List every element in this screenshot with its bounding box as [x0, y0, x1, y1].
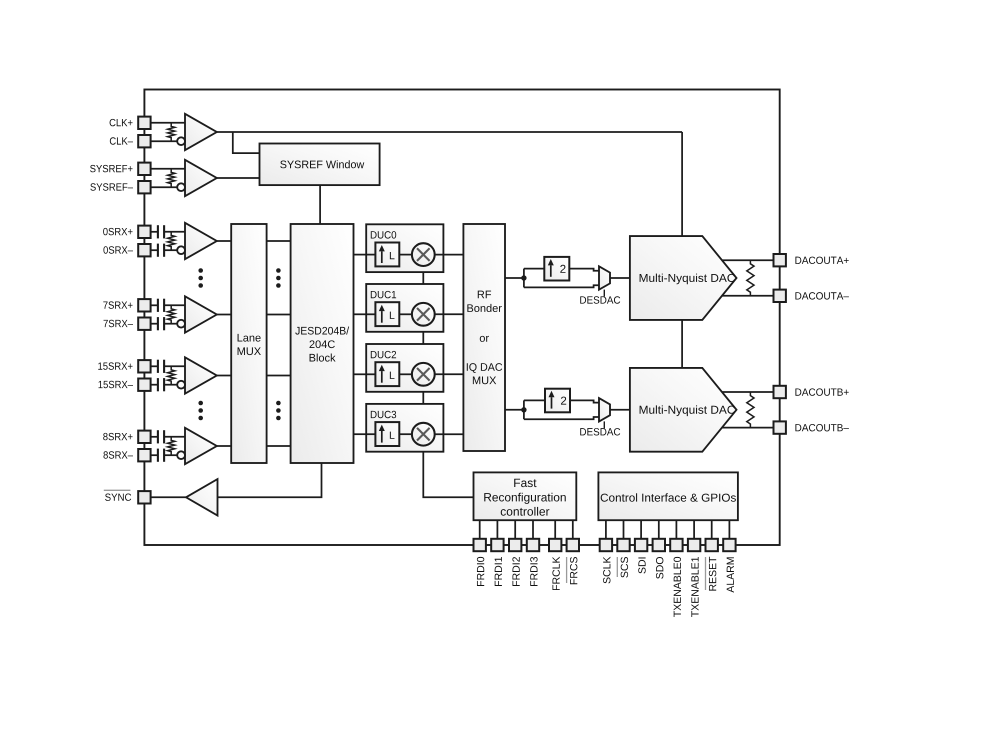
overline SCS — [616, 557, 618, 577]
wire RF mux output — [505, 409, 524, 411]
DESDAC select line — [603, 290, 605, 297]
DUC3 box — [366, 404, 443, 452]
input buffer 8SRX+/8SRX– — [185, 428, 217, 464]
pin SCS — [617, 539, 629, 551]
label CLK+ — [110, 119, 133, 126]
mixer DUC0 — [412, 243, 435, 266]
wire to pin FRDI2 — [514, 520, 516, 539]
capacitor on 15SRX– line — [157, 378, 159, 391]
wire into interpolator DUC3 — [366, 433, 375, 435]
buffer inverting bubble CLK– — [177, 137, 185, 145]
pin TXENABLE0 — [670, 539, 682, 551]
label FRDI3 — [530, 557, 537, 586]
pin DACOUTB+ — [774, 386, 786, 398]
wire RF mux output — [505, 277, 524, 279]
wire interpolator to mixer DUC0 — [399, 254, 412, 256]
block Lane MUX — [231, 224, 266, 463]
pin 15SRX+ — [138, 360, 150, 372]
wire to pin ALARM — [728, 520, 730, 539]
wire to pin FRCLK — [554, 520, 556, 539]
pin CLK– — [138, 135, 150, 147]
termination resistor 8SRX+/8SRX– — [168, 437, 175, 455]
wire CLK to SYSREF Window — [233, 132, 260, 153]
wire to pin TXENABLE1 — [693, 520, 695, 539]
junction node — [521, 275, 526, 280]
wire interpolator to mixer DUC2 — [399, 373, 412, 375]
capacitor on 7SRX– line — [157, 317, 159, 330]
label DUC3 — [371, 411, 396, 418]
bypass wire to DESDAC mux — [524, 417, 599, 419]
wire CLK buffer output — [217, 131, 682, 133]
pin DACOUTB– — [774, 421, 786, 433]
wire interpolator to mixer DUC3 — [399, 433, 412, 435]
x2 interpolator — [545, 389, 570, 413]
wire DACOUTA– — [722, 295, 774, 297]
label CLK– — [110, 137, 133, 144]
termination resistor 7SRX+/7SRX– — [168, 305, 175, 323]
wire to pin FRDI0 — [479, 520, 481, 539]
input buffer CLK+/CLK– — [185, 114, 217, 150]
wire buffer to Lane MUX (7SRX) — [217, 314, 232, 316]
label FRCLK — [552, 557, 559, 590]
interpolator (up-L) DUC3 — [375, 422, 399, 446]
wire 7SRX– to buffer bubble — [151, 323, 157, 325]
wire DACOUTB+ — [722, 391, 774, 393]
mixer DUC2 — [412, 363, 435, 386]
wire NCO chain to Fast Reconfiguration controller — [423, 255, 473, 498]
wire SYNC buffer to JESD204 block — [218, 463, 322, 497]
DESDAC mux — [599, 398, 610, 421]
label SDO — [656, 557, 663, 579]
ellipsis dots — [276, 401, 281, 406]
interpolator (up-L) DUC2 — [375, 362, 399, 386]
ellipsis dots — [198, 268, 203, 273]
block SYSREF Window — [260, 144, 380, 186]
wire to pin TXENABLE0 — [675, 520, 677, 539]
wire clock DAC A to DAC B — [681, 320, 683, 368]
junction node — [521, 407, 526, 412]
wire SYSREF– to buffer bubble — [151, 186, 178, 188]
block Control Interface &amp; GPIOs — [598, 472, 738, 520]
pin 0SRX– — [138, 244, 150, 256]
pin FRDI2 — [509, 539, 521, 551]
overline SYNC — [104, 489, 131, 491]
wire 8SRX– to buffer bubble — [151, 454, 157, 456]
termination resistor 0SRX+/0SRX– — [168, 232, 175, 250]
pin SDO — [653, 539, 665, 551]
Multi-Nyquist DAC A — [630, 236, 737, 320]
SYNC input buffer — [186, 479, 218, 515]
wire clock to DAC A — [681, 132, 683, 236]
ellipsis dots — [198, 401, 203, 406]
label FRCS — [570, 557, 577, 584]
wire SYSREF buffer to SYSREF Window — [217, 177, 260, 179]
DUC0 box — [366, 224, 443, 272]
wire to pin FRDI3 — [532, 520, 534, 539]
DUC1 box — [366, 284, 443, 332]
termination resistor CLK+/CLK– — [168, 123, 175, 141]
wire to x2 interpolator — [524, 268, 544, 270]
pin FRDI0 — [474, 539, 486, 551]
wire Lane MUX to JESD204 (lane 15) — [267, 375, 291, 377]
label FRDI2 — [512, 557, 519, 586]
wire mixer to RF mux DUC3 — [435, 433, 464, 435]
label DACOUTA– — [795, 292, 848, 299]
wire to pin SCLK — [605, 520, 607, 539]
capacitor on 7SRX+ line — [157, 299, 159, 312]
wire Lane MUX to JESD204 (lane 0) — [267, 240, 291, 242]
input buffer 7SRX+/7SRX– — [185, 296, 217, 332]
interpolator (up-L) DUC1 — [375, 302, 399, 326]
pin FRDI3 — [527, 539, 539, 551]
pin 7SRX+ — [138, 299, 150, 311]
label DESDAC — [580, 428, 620, 435]
wire mixer to RF mux DUC0 — [435, 254, 464, 256]
label SDI — [638, 557, 645, 573]
pin DACOUTA+ — [774, 254, 786, 266]
buffer inverting bubble 8SRX– — [177, 451, 185, 459]
termination resistor SYSREF+/SYSREF– — [168, 169, 175, 187]
pin DACOUTA– — [774, 290, 786, 302]
wire JESD204 to DUC2 — [354, 373, 367, 375]
input buffer SYSREF+/SYSREF– — [185, 160, 217, 196]
label SYSREF+ — [90, 165, 132, 172]
wire interpolator to mixer DUC1 — [399, 313, 412, 315]
x2 interpolator — [544, 257, 569, 281]
block Fast Reconfiguration controller — [474, 472, 577, 520]
wire DESDAC mux to DAC — [610, 277, 630, 279]
label RESET — [709, 557, 716, 591]
wire mixer to RF mux DUC1 — [435, 313, 464, 315]
DUC2 box — [366, 344, 443, 392]
pin FRDI1 — [491, 539, 503, 551]
pin CLK+ — [138, 117, 150, 129]
wire to pin SDI — [640, 520, 642, 539]
label SYSREF– — [90, 183, 133, 190]
label 7SRX– — [104, 320, 133, 327]
block JESD204B/204C — [291, 224, 354, 463]
wire SYSREF+ to buffer — [151, 168, 185, 170]
label ALARM — [727, 557, 734, 592]
pin 7SRX– — [138, 318, 150, 330]
wire DACOUTB– — [722, 427, 774, 429]
wire JESD204 to DUC0 — [354, 254, 367, 256]
wire x2 to DESDAC mux — [569, 269, 599, 271]
overline RESET — [705, 557, 707, 590]
DESDAC select line — [603, 421, 605, 428]
wire buffer to Lane MUX (0SRX) — [217, 240, 232, 242]
wire 15SRX– to buffer bubble — [151, 384, 157, 386]
bypass wire to DESDAC mux — [524, 285, 599, 287]
pin 0SRX+ — [138, 226, 150, 238]
wire CLK+ to buffer — [151, 122, 185, 124]
termination resistor B — [747, 392, 754, 428]
wire JESD204 to DUC3 — [354, 433, 367, 435]
wire SYSREF Window to JESD204 block — [319, 185, 321, 224]
wire Lane MUX to JESD204 (lane 7) — [267, 314, 291, 316]
capacitor on 0SRX– line — [157, 244, 159, 257]
overline FRCS — [566, 557, 568, 583]
chip boundary frame — [144, 90, 779, 546]
DESDAC mux — [599, 266, 610, 289]
label 8SRX– — [103, 451, 133, 458]
label 8SRX+ — [103, 433, 132, 440]
pin 8SRX+ — [138, 431, 150, 443]
input buffer 0SRX+/0SRX– — [185, 223, 217, 259]
pin RESET — [706, 539, 718, 551]
pin FRCLK — [549, 539, 561, 551]
wire buffer to Lane MUX (8SRX) — [217, 445, 232, 447]
pin SYNC — [138, 491, 150, 503]
label DACOUTB– — [795, 424, 848, 431]
pin 8SRX– — [138, 449, 150, 461]
pin SYSREF+ — [138, 163, 150, 175]
label 15SRX+ — [98, 362, 132, 369]
pin FRCS — [567, 539, 579, 551]
label 7SRX+ — [103, 301, 132, 308]
mixer DUC3 — [412, 423, 435, 446]
pin SCLK — [600, 539, 612, 551]
pin SYSREF– — [138, 181, 150, 193]
interpolator (up-L) DUC0 — [375, 243, 399, 267]
label DUC0 — [371, 231, 396, 238]
label SCLK — [603, 557, 610, 584]
wire x2 to DESDAC mux — [570, 400, 599, 402]
buffer inverting bubble 15SRX– — [177, 381, 185, 389]
pin SDI — [635, 539, 647, 551]
wire 8SRX+ to buffer — [151, 436, 157, 438]
label DESDAC — [580, 296, 620, 303]
wire into interpolator DUC2 — [366, 373, 375, 375]
wire into interpolator DUC0 — [366, 254, 375, 256]
label SYNC — [105, 493, 131, 500]
label TXENABLE1 — [691, 557, 698, 617]
input buffer 15SRX+/15SRX– — [185, 357, 217, 393]
wire 7SRX+ to buffer — [151, 304, 157, 306]
termination resistor 15SRX+/15SRX– — [168, 366, 175, 384]
termination resistor A — [747, 260, 754, 296]
wire into interpolator DUC1 — [366, 313, 375, 315]
wire to pin SCS — [623, 520, 625, 539]
pin ALARM — [723, 539, 735, 551]
wire DACOUTA+ — [722, 259, 774, 261]
ellipsis dots — [276, 268, 281, 273]
wire to x2 interpolator — [524, 399, 545, 401]
wire to pin RESET — [711, 520, 713, 539]
wire 0SRX+ to buffer — [151, 231, 157, 233]
pin TXENABLE1 — [688, 539, 700, 551]
label 0SRX– — [103, 246, 133, 253]
label DUC1 — [371, 291, 396, 298]
label FRDI1 — [495, 557, 502, 586]
wire to pin SDO — [658, 520, 660, 539]
wire buffer to Lane MUX (15SRX) — [217, 375, 232, 377]
Multi-Nyquist DAC B — [630, 368, 737, 452]
label DACOUTA+ — [795, 257, 848, 264]
label 15SRX– — [99, 381, 133, 388]
wire to pin FRDI1 — [496, 520, 498, 539]
wire Lane MUX to JESD204 (lane 8) — [267, 445, 291, 447]
label 0SRX+ — [103, 228, 132, 235]
block RF Bonder / IQ DAC MUX — [463, 224, 505, 451]
capacitor on 8SRX– line — [157, 449, 159, 462]
wire to pin FRCS — [572, 520, 574, 539]
mixer DUC1 — [412, 303, 435, 326]
wire DESDAC mux to DAC — [610, 409, 630, 411]
wire CLK– to buffer bubble — [151, 140, 178, 142]
buffer inverting bubble 7SRX– — [177, 320, 185, 328]
label SCS — [621, 557, 628, 578]
capacitor on 0SRX+ line — [157, 225, 159, 238]
label DUC2 — [371, 351, 396, 358]
wire 15SRX+ to buffer — [151, 365, 157, 367]
pin 15SRX– — [138, 379, 150, 391]
wire JESD204 to DUC1 — [354, 313, 367, 315]
label DACOUTB+ — [795, 388, 848, 395]
capacitor on 8SRX+ line — [157, 430, 159, 443]
buffer inverting bubble SYSREF– — [177, 183, 185, 191]
label TXENABLE0 — [674, 557, 681, 617]
wire SYNC pin to buffer — [151, 496, 186, 498]
buffer inverting bubble 0SRX– — [177, 246, 185, 254]
capacitor on 15SRX+ line — [157, 360, 159, 373]
wire 0SRX– to buffer bubble — [151, 249, 157, 251]
wire mixer to RF mux DUC2 — [435, 373, 464, 375]
label FRDI0 — [477, 557, 484, 586]
